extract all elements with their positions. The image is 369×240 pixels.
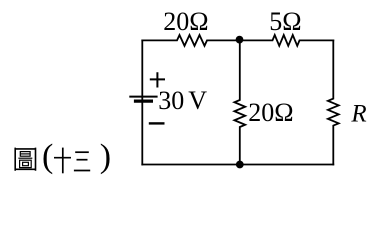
svg-text:20Ω: 20Ω [248,98,293,127]
svg-text:V: V [188,86,207,115]
svg-text:5Ω: 5Ω [269,7,301,36]
svg-text:R: R [350,100,366,127]
svg-text:30: 30 [158,86,184,115]
svg-text:(: ( [42,138,53,175]
svg-text:): ) [100,138,111,175]
svg-text:20Ω: 20Ω [163,7,208,36]
